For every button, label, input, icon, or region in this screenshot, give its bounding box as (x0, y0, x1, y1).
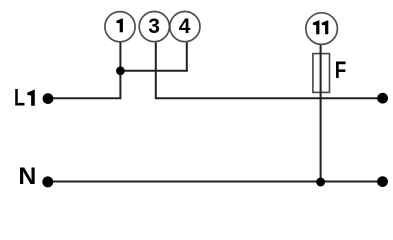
svg-text:F: F (335, 57, 347, 84)
svg-text:L: L (14, 85, 25, 112)
svg-text:N: N (18, 163, 36, 190)
svg-text:3: 3 (148, 15, 160, 38)
svg-text:4: 4 (179, 15, 191, 38)
